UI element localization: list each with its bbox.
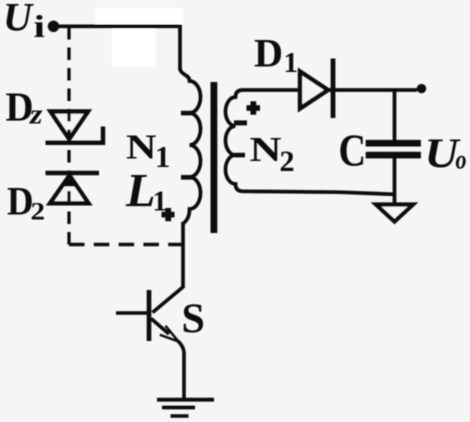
svg-text:D: D xyxy=(254,30,283,75)
svg-text:z: z xyxy=(29,100,43,131)
svg-text:1: 1 xyxy=(153,186,168,218)
svg-text:1: 1 xyxy=(155,140,170,174)
svg-text:S: S xyxy=(182,297,205,343)
svg-text:1: 1 xyxy=(284,47,299,79)
svg-text:o: o xyxy=(456,144,467,175)
svg-text:2: 2 xyxy=(280,145,295,178)
svg-text:C: C xyxy=(339,125,367,176)
svg-text:2: 2 xyxy=(31,197,46,226)
svg-text:N: N xyxy=(126,128,157,167)
svg-text:i: i xyxy=(34,8,46,44)
svg-text:N: N xyxy=(250,130,282,169)
svg-text:U: U xyxy=(3,0,34,39)
svg-text:L: L xyxy=(125,165,156,218)
